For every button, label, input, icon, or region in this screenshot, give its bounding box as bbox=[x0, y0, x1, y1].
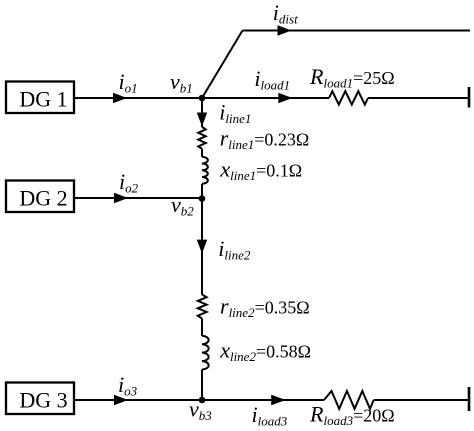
inductor x_line2 bbox=[202, 336, 209, 370]
wire r_line2 to x_line2 bbox=[201, 319, 203, 336]
node vb2 bbox=[199, 195, 206, 202]
wire vb3 to Rload3 lead bbox=[202, 399, 324, 401]
terminal bar load3 bbox=[468, 387, 471, 411]
arrowhead i_o3 bbox=[114, 395, 128, 405]
resistor r_line1 bbox=[198, 127, 205, 149]
arrowhead i_dist bbox=[278, 25, 292, 35]
wire vb1 to Rload1 lead bbox=[202, 97, 329, 99]
wire x_line1 to node vb2 bbox=[201, 184, 203, 199]
arrowhead i_o1 bbox=[113, 93, 127, 103]
svg-text:DG 1: DG 1 bbox=[19, 87, 67, 112]
wire DG3 to node vb3 bbox=[74, 399, 202, 401]
arrowhead i_line2 (down) bbox=[197, 240, 207, 254]
wire diagonal vb1 to dist corner bbox=[202, 31, 243, 99]
DG2 box bbox=[6, 181, 74, 213]
wire Rload1 to terminal bbox=[368, 97, 469, 99]
resistor R_load3 bbox=[324, 391, 374, 409]
terminal bar load1 bbox=[468, 87, 471, 108]
wire Rload3 to terminal bbox=[374, 399, 469, 401]
arrowhead i_line1 (down) bbox=[197, 113, 207, 127]
wire i_dist horizontal bbox=[243, 30, 471, 32]
wire vb1 down to r_line1 bbox=[201, 98, 203, 127]
arrowhead i_o2 bbox=[114, 193, 128, 203]
resistor R_load1 bbox=[329, 91, 368, 104]
node vb1 bbox=[199, 95, 206, 102]
svg-text:DG 3: DG 3 bbox=[19, 388, 67, 413]
DG1 box bbox=[6, 82, 74, 114]
wire DG1 to node vb1 bbox=[74, 97, 202, 99]
arrowhead i_load1 bbox=[278, 93, 292, 103]
wire x_line2 to node vb3 bbox=[201, 370, 203, 401]
DG3 box bbox=[6, 383, 74, 415]
wire r_line1 to x_line1 bbox=[201, 149, 203, 157]
inductor x_line1 bbox=[202, 157, 208, 184]
resistor r_line2 bbox=[198, 295, 207, 319]
arrowhead i_load3 bbox=[271, 395, 286, 405]
wire DG2 to node vb2 bbox=[74, 197, 202, 199]
svg-text:DG 2: DG 2 bbox=[19, 186, 67, 211]
wire vb2 down to r_line2 bbox=[201, 198, 203, 295]
node vb3 bbox=[199, 397, 206, 404]
